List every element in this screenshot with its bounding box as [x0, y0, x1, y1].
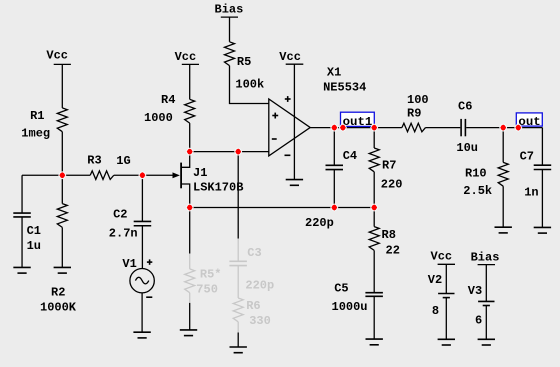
- svg-text:1G: 1G: [116, 154, 130, 168]
- svg-text:C3: C3: [247, 246, 261, 260]
- resistor R2: [40, 204, 77, 315]
- wire C5 to ground: [373, 296, 375, 339]
- svg-text:C2: C2: [113, 208, 127, 222]
- svg-text:C6: C6: [458, 100, 472, 114]
- wire R7 branch down: [373, 128, 375, 148]
- node out1: [341, 112, 375, 129]
- svg-text:8: 8: [432, 304, 439, 318]
- wire drain rail to op-amp minus input: [190, 151, 269, 153]
- svg-text:R5: R5: [237, 55, 251, 69]
- wire Bias to R5: [229, 17, 231, 42]
- svg-text:R5*: R5*: [200, 267, 222, 281]
- resistor R3: [87, 153, 130, 179]
- wire R8 to C5: [373, 250, 375, 292]
- svg-text:R9: R9: [407, 107, 421, 121]
- junction (374,128): [371, 124, 378, 131]
- power flag Bias (V3): [471, 250, 500, 264]
- wire C6 to out node: [466, 127, 542, 129]
- svg-text:750: 750: [196, 282, 218, 296]
- svg-text:2.5k: 2.5k: [463, 184, 492, 198]
- junction (142,175): [139, 172, 146, 179]
- svg-text:1n: 1n: [524, 185, 538, 199]
- junction (238,152): [235, 148, 242, 155]
- svg-text:R2: R2: [51, 285, 65, 299]
- wire V1 to ground: [141, 293, 143, 332]
- wire gate: [142, 174, 173, 176]
- resistor R8: [369, 227, 400, 258]
- capacitor C7: [520, 150, 552, 200]
- svg-text:330: 330: [249, 314, 271, 328]
- svg-text:10u: 10u: [456, 141, 478, 155]
- wire R3 to C2 node: [114, 174, 143, 176]
- svg-text:R7: R7: [382, 159, 396, 173]
- svg-text:Vcc: Vcc: [46, 49, 68, 63]
- power flag Vcc (V2): [431, 249, 456, 264]
- wire out corner down to C7: [541, 128, 543, 166]
- svg-text:J1: J1: [193, 166, 207, 180]
- wire C4 branch down: [333, 128, 335, 166]
- junction (190,208): [186, 204, 193, 211]
- wire R2 to ground: [61, 227, 63, 267]
- wire R10 to ground: [502, 186, 504, 227]
- svg-text:C4: C4: [343, 149, 357, 163]
- resistor R9: [402, 93, 429, 132]
- wire C2 node down: [141, 175, 143, 221]
- svg-text:220: 220: [381, 178, 403, 192]
- junction (343,128): [339, 124, 346, 131]
- svg-text:1u: 1u: [27, 239, 41, 253]
- voltage source V2: [428, 264, 455, 339]
- resistor R5: [225, 42, 265, 92]
- svg-text:6: 6: [475, 314, 482, 328]
- ground below R10: [495, 227, 512, 233]
- ground below op-amp: [286, 180, 303, 186]
- ground below C1: [13, 267, 30, 273]
- ground below V3: [478, 339, 495, 345]
- wire R1 to input node: [61, 132, 63, 176]
- wire feedback node down: [237, 152, 239, 239]
- wire R5* to ground: [189, 303, 191, 330]
- svg-text:R8: R8: [382, 228, 396, 242]
- wire input rail left: [22, 174, 90, 176]
- junction (62,175): [59, 172, 66, 179]
- wire R5 to plus input: [230, 66, 269, 104]
- svg-text:R3: R3: [87, 153, 101, 167]
- junction (374,208): [371, 204, 378, 211]
- svg-text:V1: V1: [122, 257, 136, 271]
- power flag Vcc (R4 rail): [175, 50, 199, 64]
- svg-text:Bias: Bias: [215, 3, 244, 17]
- svg-text:Vcc: Vcc: [431, 249, 453, 263]
- capacitor C1: [13, 213, 41, 253]
- svg-text:1000u: 1000u: [332, 300, 368, 314]
- svg-text:V2: V2: [428, 273, 442, 287]
- svg-text:V3: V3: [468, 284, 482, 298]
- svg-text:100k: 100k: [235, 77, 264, 91]
- ground below V1: [133, 332, 150, 338]
- wire Vcc to R4: [189, 64, 191, 99]
- ground below R2: [54, 267, 71, 273]
- junction (334,128): [331, 124, 338, 131]
- svg-text:22: 22: [386, 244, 400, 258]
- svg-text:LSK170B: LSK170B: [193, 180, 243, 194]
- svg-text:Vcc: Vcc: [279, 50, 301, 64]
- svg-text:R1: R1: [30, 109, 44, 123]
- wire C2 to V1: [141, 226, 143, 269]
- power flag Vcc (op-amp): [279, 50, 303, 64]
- svg-text:X1: X1: [327, 66, 341, 80]
- junction (190,152): [186, 148, 193, 155]
- wire R9 to C6: [426, 127, 461, 129]
- ground below V2: [438, 339, 455, 345]
- capacitor C2: [109, 208, 151, 241]
- svg-text:R10: R10: [465, 167, 487, 181]
- svg-text:220p: 220p: [305, 216, 334, 230]
- svg-text:C1: C1: [27, 224, 41, 238]
- wire Vcc to R1: [61, 64, 63, 108]
- wire C7 to ground: [541, 170, 543, 228]
- capacitor C5: [332, 281, 383, 314]
- ground below C7: [534, 227, 551, 233]
- capacitor C6: [456, 100, 478, 156]
- svg-text:R6: R6: [246, 299, 260, 313]
- svg-text:Vcc: Vcc: [175, 50, 197, 64]
- wire C1 to ground: [21, 217, 23, 268]
- wire source rail: [190, 207, 375, 209]
- capacitor C4: [326, 149, 358, 170]
- wire R4 to drain node: [189, 123, 191, 152]
- svg-text:NE5534: NE5534: [323, 80, 366, 94]
- svg-text:1000K: 1000K: [40, 300, 77, 314]
- power flag Vcc (left rail): [46, 49, 71, 65]
- junction (518,128): [515, 124, 522, 131]
- svg-text:R4: R4: [161, 93, 175, 107]
- voltage source V3: [468, 265, 495, 340]
- wire R6 to ground: [237, 333, 239, 348]
- wire R10 branch: [502, 128, 504, 163]
- transistor J1: [173, 152, 244, 208]
- wire C4 to source rail: [333, 170, 335, 208]
- wire R8 branch: [373, 208, 375, 227]
- ground below C5: [366, 339, 383, 345]
- resistor R1: [21, 108, 67, 141]
- resistor R4: [144, 93, 195, 125]
- wire left corner down to C1: [21, 175, 23, 213]
- node out: [516, 113, 542, 129]
- svg-text:Bias: Bias: [471, 250, 500, 264]
- ground below R6: [230, 347, 247, 353]
- ground below R5*: [180, 330, 197, 336]
- wire R7 to source rail: [373, 172, 375, 208]
- wire source down to R5*: [189, 208, 191, 254]
- svg-text:2.7n: 2.7n: [109, 227, 138, 241]
- wire op-amp output rail: [310, 127, 402, 129]
- svg-text:C7: C7: [520, 150, 534, 164]
- resistor R7: [369, 148, 402, 192]
- junction (503,128): [500, 124, 507, 131]
- op-amp U1 X1 NE5534: [269, 64, 367, 179]
- resistor R6 (disabled): [233, 298, 271, 333]
- voltage source V1: [122, 257, 154, 297]
- svg-text:out1: out1: [343, 115, 373, 129]
- resistor R5* (disabled): [185, 254, 222, 303]
- svg-text:1meg: 1meg: [21, 127, 50, 141]
- svg-text:100: 100: [407, 93, 429, 107]
- svg-text:220p: 220p: [245, 279, 274, 293]
- resistor R10: [463, 162, 508, 198]
- svg-text:1000: 1000: [144, 111, 173, 125]
- capacitor C3 (disabled): [229, 239, 274, 298]
- svg-text:C5: C5: [334, 281, 348, 295]
- wire input node to R2: [61, 175, 63, 203]
- power flag Bias (top): [215, 3, 244, 18]
- junction (334,208): [331, 204, 338, 211]
